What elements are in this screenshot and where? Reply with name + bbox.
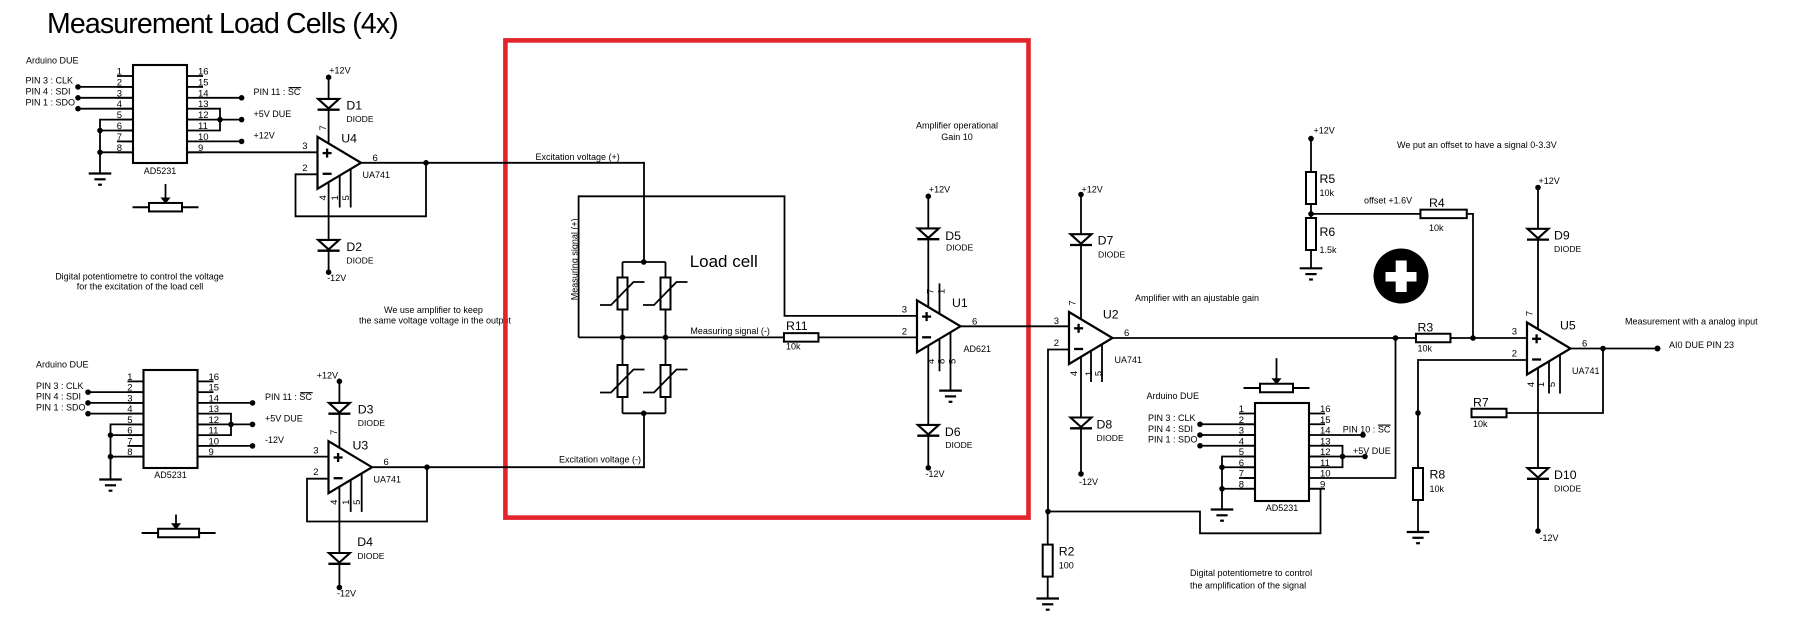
pin 6 stub <box>1239 466 1255 468</box>
svg-text:+12V: +12V <box>317 370 338 380</box>
svg-text:R11: R11 <box>786 319 808 333</box>
svg-text:7: 7 <box>127 436 132 447</box>
pin 12 stub <box>198 423 214 425</box>
svg-text:Excitation voltage (+): Excitation voltage (+) <box>536 152 620 162</box>
svg-text:15: 15 <box>198 77 209 88</box>
node -12V terminal #2 <box>250 443 256 449</box>
svg-text:5: 5 <box>1093 371 1104 376</box>
wire SDI to pin3 #3 <box>1200 434 1255 436</box>
pin 4 stub <box>1239 445 1255 447</box>
wire D6 to -12V <box>927 436 929 468</box>
diode D4 <box>329 553 350 563</box>
svg-text:+5V DUE: +5V DUE <box>1353 446 1391 456</box>
resistor R2 <box>1047 512 1049 545</box>
wire gain net to IC3 pin9 <box>1048 489 1321 534</box>
svg-text:R4: R4 <box>1429 196 1445 210</box>
potentiometer symbol #2 <box>158 529 199 538</box>
svg-text:DIODE: DIODE <box>945 440 972 450</box>
junction +5V bracket #3 <box>1340 454 1346 460</box>
svg-text:AD5231: AD5231 <box>144 166 177 176</box>
svg-text:4: 4 <box>1069 371 1080 376</box>
wire pin10 to +12V <box>203 140 242 142</box>
pin 11 stub <box>198 434 214 436</box>
svg-text:+12V: +12V <box>1082 185 1103 195</box>
svg-text:DIODE: DIODE <box>358 418 385 428</box>
wire U4 feedback loop <box>296 163 427 217</box>
diode D9 <box>1528 229 1549 239</box>
svg-text:Measurement with a analog inpu: Measurement with a analog input <box>1625 317 1758 327</box>
pin 5 stub <box>1239 456 1255 458</box>
pin 14 stub <box>198 402 214 404</box>
node +12V terminal #1 <box>239 139 245 145</box>
wire SDO to pin4 #3 <box>1200 445 1255 447</box>
wire CLK to pin 2 <box>78 86 133 88</box>
svg-text:7: 7 <box>1068 300 1079 305</box>
junction +5V bracket <box>217 117 223 123</box>
bridge right column upper lead <box>665 262 667 278</box>
svg-text:Amplifier operational: Amplifier operational <box>916 121 998 131</box>
svg-text:D7: D7 <box>1098 234 1114 248</box>
svg-text:+12V: +12V <box>1314 126 1335 136</box>
svg-text:10k: 10k <box>1320 188 1335 198</box>
IC AD5231 #2 (digital potentiometer, excitation -) <box>144 370 198 468</box>
node CLK terminal #2 <box>85 389 91 395</box>
junction pin6 gnd #2 <box>108 432 114 438</box>
svg-text:AD5231: AD5231 <box>1266 503 1299 513</box>
bridge left column upper lead <box>622 262 624 278</box>
potentiometer symbol #1 <box>149 203 182 212</box>
wire U5 pin2 from R7 node <box>1418 360 1527 413</box>
bridge middle rail (measuring -) <box>579 336 784 338</box>
svg-text:7: 7 <box>117 132 122 143</box>
svg-text:3: 3 <box>1512 327 1517 338</box>
resistor R7 <box>1472 409 1507 418</box>
pin 11 stub <box>187 130 203 132</box>
junction pin8 gnd #2 <box>108 454 114 460</box>
svg-text:PIN 11 : SC: PIN 11 : SC <box>254 87 301 97</box>
diode D1 <box>318 99 339 109</box>
bridge left column lower lead <box>622 397 624 413</box>
node bridge bottom <box>641 411 647 417</box>
ground R8 <box>1407 531 1430 533</box>
wire pin10 to U2 output (feedback) <box>1325 338 1396 478</box>
IC AD5231 #1 (digital potentiometer, excitation) <box>133 65 187 163</box>
svg-text:D1: D1 <box>346 99 362 113</box>
pin 3 stub <box>117 97 133 99</box>
diode D2 <box>318 240 339 250</box>
pin 1 stub <box>1239 413 1255 415</box>
wire U3 feedback loop <box>307 467 427 521</box>
svg-text:DIODE: DIODE <box>346 114 373 124</box>
svg-text:3: 3 <box>1054 316 1059 327</box>
pin 15 stub <box>1309 423 1325 425</box>
op-amp U5 <box>1527 323 1571 375</box>
svg-text:-12V: -12V <box>1540 533 1559 543</box>
power -12V (D2) <box>326 269 332 275</box>
pin 13 stub <box>187 108 203 110</box>
wire pin14 to PIN11 #2 <box>214 402 253 404</box>
svg-text:D5: D5 <box>945 229 961 243</box>
svg-text:2: 2 <box>313 467 318 478</box>
pin 7 stub <box>1239 477 1255 479</box>
pin 6 stub <box>117 130 133 132</box>
svg-text:R7: R7 <box>1473 395 1489 409</box>
svg-text:+5V DUE: +5V DUE <box>265 414 303 424</box>
svg-text:PIN 3 : CLK: PIN 3 : CLK <box>1148 413 1196 423</box>
wire D8 to -12V <box>1080 429 1082 474</box>
svg-text:AD621: AD621 <box>964 344 992 354</box>
svg-text:8: 8 <box>937 359 948 364</box>
svg-text:D8: D8 <box>1097 417 1113 431</box>
svg-text:+12V: +12V <box>929 184 950 194</box>
svg-text:offset +1.6V: offset +1.6V <box>1364 195 1412 205</box>
svg-text:D3: D3 <box>358 403 374 417</box>
pin 3 stub <box>128 402 144 404</box>
pin 5 stub (U2) <box>1101 344 1103 382</box>
IC AD5231 #3 (digital potentiometer, gain) <box>1255 403 1309 501</box>
svg-text:Excitation voltage (-): Excitation voltage (-) <box>559 454 641 464</box>
svg-text:5: 5 <box>1547 382 1558 387</box>
pin 5 stub (U4) <box>350 169 352 208</box>
wire +12V to D3 <box>338 381 340 403</box>
svg-text:U5: U5 <box>1560 319 1576 333</box>
svg-text:R6: R6 <box>1320 225 1336 239</box>
strain gauge R upper-left <box>618 278 628 310</box>
pin 1 stub (U2) <box>1090 351 1092 382</box>
diode D10 <box>1528 468 1549 478</box>
resistor R11 <box>784 333 819 342</box>
wire U1 pin4 to D6 <box>927 346 929 425</box>
svg-text:R5: R5 <box>1320 172 1336 186</box>
pin 13 stub <box>198 413 214 415</box>
node AI0 terminal <box>1655 346 1661 352</box>
pin 5 stub (U3) <box>361 473 363 512</box>
pin 10 stub <box>187 140 203 142</box>
wire IC2 pin9 to U3 pin3 <box>198 456 329 458</box>
wire pins 5-8 ground bus #2 <box>111 424 144 479</box>
svg-text:DIODE: DIODE <box>946 243 973 253</box>
svg-text:1: 1 <box>127 372 132 383</box>
svg-text:9: 9 <box>1320 479 1325 490</box>
svg-text:UA741: UA741 <box>1115 355 1143 365</box>
junction R7/R8/pin2 <box>1415 410 1421 416</box>
junction U3 output feedback <box>424 464 430 470</box>
svg-text:10k: 10k <box>786 342 801 352</box>
diode D6 <box>918 425 939 435</box>
svg-text:U2: U2 <box>1103 308 1119 322</box>
wire U2 pin2 feedback down <box>1048 350 1069 512</box>
svg-text:PIN 4 : SDI: PIN 4 : SDI <box>26 87 71 97</box>
pin 12 stub <box>187 119 203 121</box>
pin 15 stub <box>198 391 214 393</box>
svg-text:+12V: +12V <box>254 131 275 141</box>
op-amp U1 AD621 <box>917 300 961 352</box>
wire U5 pin4 to D10 <box>1537 368 1539 468</box>
svg-text:1: 1 <box>330 195 341 200</box>
junction pin8 gnd #3 <box>1219 486 1225 492</box>
power -12V (D10) <box>1535 528 1541 534</box>
pin 8 stub <box>1239 488 1255 490</box>
red highlight box <box>505 40 1028 517</box>
power -12V (D6) <box>926 465 932 471</box>
wire SDO to pin4 #2 <box>88 413 144 415</box>
svg-text:PIN 1 : SDO: PIN 1 : SDO <box>26 98 76 108</box>
pin 11 stub <box>1309 466 1325 468</box>
junction pin8 gnd #1 <box>97 150 103 156</box>
junction U4 output feedback <box>423 160 429 166</box>
diode D7 <box>1071 234 1092 244</box>
bridge right column lower lead <box>665 397 667 413</box>
svg-text:U4: U4 <box>341 132 357 146</box>
wire excitation- from U3 out to bridge bottom <box>372 413 644 467</box>
svg-text:1: 1 <box>117 67 122 78</box>
svg-text:Measurement Load Cells (4x): Measurement Load Cells (4x) <box>47 8 398 40</box>
svg-text:PIN 1 : SDO: PIN 1 : SDO <box>36 402 86 412</box>
svg-text:100: 100 <box>1059 561 1074 571</box>
svg-text:3: 3 <box>302 141 307 152</box>
svg-text:Load cell: Load cell <box>690 252 758 271</box>
wire +12V to R5 <box>1310 139 1312 172</box>
node SDO terminal #2 <box>85 411 91 417</box>
svg-text:DIODE: DIODE <box>1554 483 1581 493</box>
pin 14 stub <box>1309 434 1325 436</box>
svg-text:2: 2 <box>302 163 307 174</box>
wire R7 to output node <box>1507 349 1604 414</box>
svg-text:4: 4 <box>318 195 329 200</box>
pin 1 stub <box>128 380 144 382</box>
wire +12V to D7 <box>1080 195 1082 235</box>
svg-text:R2: R2 <box>1059 545 1075 559</box>
wire U3 pin4 to D4 <box>338 487 340 553</box>
wire R5 to junction <box>1310 204 1312 218</box>
strain gauge R lower-left <box>618 365 628 397</box>
wire R6 to ground <box>1310 250 1312 268</box>
wire D3 to U3 pin7 <box>338 414 340 448</box>
pin 16 stub <box>198 380 214 382</box>
svg-text:PIN 10 : SC: PIN 10 : SC <box>1343 425 1391 435</box>
wire R8 from node <box>1417 413 1419 468</box>
pin 1 stub (U4) <box>339 176 341 208</box>
svg-text:the same voltage voltage in th: the same voltage voltage in the output <box>359 315 512 325</box>
svg-text:-12V: -12V <box>327 273 346 283</box>
wire IC1 pin9 to U4 pin3 <box>187 151 318 153</box>
op-amp U4 <box>318 137 362 189</box>
junction U5 out feedback <box>1600 346 1606 352</box>
wire CLK to pin2 #2 <box>88 391 144 393</box>
svg-text:+12V: +12V <box>1539 176 1560 186</box>
junction U2 out / pot feedback <box>1393 335 1399 341</box>
wire +12V to D5 <box>927 196 929 228</box>
wire pin14 to PIN11 label <box>203 97 242 99</box>
pin 4 stub <box>128 413 144 415</box>
pin 4 stub <box>117 108 133 110</box>
pin 3 stub <box>1239 434 1255 436</box>
svg-text:1.5k: 1.5k <box>1320 245 1338 255</box>
pin 7 stub <box>128 445 144 447</box>
wire CLK to pin2 #3 <box>1200 423 1255 425</box>
svg-text:PIN 4 : SDI: PIN 4 : SDI <box>1148 424 1193 434</box>
node PIN11 terminal <box>239 95 245 101</box>
pin 8 stub <box>117 151 133 153</box>
pin 5 stub to ground (U1) <box>950 332 952 390</box>
node SDO terminal #3 <box>1197 443 1203 449</box>
pin 9 stub <box>187 151 203 153</box>
diode D8 <box>1071 418 1092 428</box>
pin 1 stub (U5) <box>1548 361 1550 393</box>
wire pin14 to PIN10 #3 <box>1325 434 1363 436</box>
wire +12V to D9 <box>1537 188 1539 229</box>
wire D10 to -12V <box>1537 479 1539 531</box>
pin 12 stub <box>1309 456 1325 458</box>
pot symbol #3 above IC3 <box>1260 384 1293 393</box>
bridge bottom rail <box>623 412 666 414</box>
wire R4 down to R3 net <box>1467 214 1473 338</box>
svg-text:U1: U1 <box>952 296 968 310</box>
junction pin6 gnd #1 <box>97 128 103 134</box>
node bridge top <box>641 259 647 265</box>
wire D9 to U5 pin7 <box>1537 240 1539 329</box>
svg-text:Digital potentiometre to contr: Digital potentiometre to control the vol… <box>55 272 224 282</box>
svg-text:AD5231: AD5231 <box>154 470 187 480</box>
node SDI terminal #3 <box>1197 432 1203 438</box>
node +5V terminal #3 <box>1362 454 1368 460</box>
svg-text:D10: D10 <box>1554 468 1577 482</box>
wire SDI to pin 3 <box>78 97 133 99</box>
svg-text:AI0 DUE PIN 23: AI0 DUE PIN 23 <box>1669 340 1734 350</box>
plus icon (black circle) <box>1374 249 1429 304</box>
wire pins 5-8 ground bus #1 <box>100 120 133 174</box>
wire pins 13-11 +5V bracket <box>187 109 242 131</box>
svg-text:PIN 1 : SDO: PIN 1 : SDO <box>1148 435 1198 445</box>
svg-text:1: 1 <box>341 500 352 505</box>
strain gauge R lower-right <box>661 365 671 397</box>
resistor R4 <box>1420 210 1466 219</box>
resistor R6 <box>1306 218 1316 250</box>
svg-text:D9: D9 <box>1554 229 1570 243</box>
svg-text:We put an offset to have a sig: We put an offset to have a signal 0-3.3V <box>1397 140 1557 150</box>
svg-text:PIN 3 : CLK: PIN 3 : CLK <box>36 381 84 391</box>
svg-text:7: 7 <box>1239 469 1244 480</box>
svg-text:-12V: -12V <box>337 588 356 598</box>
pin 16 stub <box>187 75 203 77</box>
svg-text:1: 1 <box>1239 404 1244 415</box>
svg-text:7: 7 <box>329 430 340 435</box>
wire SDI to pin3 #2 <box>88 402 144 404</box>
svg-text:Digital potentiometre to contr: Digital potentiometre to control <box>1190 568 1312 578</box>
pin 5 stub <box>128 423 144 425</box>
svg-text:7: 7 <box>318 125 329 130</box>
svg-text:the amplification of the signa: the amplification of the signal <box>1190 581 1306 591</box>
svg-text:DIODE: DIODE <box>1554 244 1581 254</box>
pin 8 stub <box>128 456 144 458</box>
resistor R5 <box>1306 172 1316 204</box>
bridge left column middle lead <box>622 310 624 366</box>
node CLK terminal #3 <box>1197 421 1203 427</box>
ground IC2 <box>99 478 122 480</box>
wire +12V to D1 <box>328 77 330 99</box>
wire U1 out to U2 pin3 <box>961 325 1070 327</box>
svg-text:for the excitation of the load: for the excitation of the load cell <box>77 282 204 292</box>
svg-text:DIODE: DIODE <box>346 256 373 266</box>
ground IC3 <box>1211 508 1234 510</box>
pin 9 stub <box>198 456 214 458</box>
pin 9 stub <box>1309 488 1325 490</box>
svg-text:D4: D4 <box>357 535 373 549</box>
node SDO terminal <box>75 106 81 112</box>
svg-text:D6: D6 <box>945 425 961 439</box>
svg-text:1: 1 <box>937 289 948 294</box>
svg-text:16: 16 <box>209 372 220 383</box>
svg-text:Arduino DUE: Arduino DUE <box>26 56 79 66</box>
svg-text:Measuring signal (-): Measuring signal (-) <box>690 326 770 336</box>
wire D7 to U2 pin7 <box>1080 245 1082 318</box>
wire R2 to ground <box>1047 577 1049 599</box>
junction middle rail left <box>620 335 626 341</box>
wire measuring+ loop to U1 pin3 <box>579 196 917 337</box>
node SDI terminal <box>75 95 81 101</box>
junction +5V bracket #2 <box>228 422 234 428</box>
svg-text:UA741: UA741 <box>1572 366 1600 376</box>
wire R8 to ground <box>1417 500 1419 532</box>
resistor R8 <box>1413 468 1423 500</box>
svg-text:Amplifier with an ajustable ga: Amplifier with an ajustable gain <box>1135 293 1259 303</box>
pin 8 stub bottom (U1) <box>939 339 941 371</box>
power -12V (D4) <box>337 585 343 591</box>
ground IC1 <box>89 172 112 174</box>
op-amp U2 <box>1069 312 1113 364</box>
pin 7 stub <box>117 140 133 142</box>
pin 10 stub <box>1309 477 1325 479</box>
svg-text:Measuring signal (+): Measuring signal (+) <box>570 218 580 300</box>
svg-text:-12V: -12V <box>926 469 945 479</box>
power -12V (D8) <box>1078 471 1084 477</box>
wire offset to R4 <box>1311 213 1421 215</box>
svg-text:2: 2 <box>902 326 907 337</box>
node +5V terminal <box>239 117 245 123</box>
svg-text:U3: U3 <box>353 438 369 452</box>
junction R2 / gain net <box>1045 509 1051 515</box>
junction pin6 gnd #3 <box>1219 464 1225 470</box>
wire D2 to -12V <box>328 251 330 272</box>
bridge right column middle lead <box>665 310 667 366</box>
svg-text:10k: 10k <box>1418 344 1433 354</box>
bridge top rail <box>623 261 666 263</box>
junction R4/R3 node <box>1470 335 1476 341</box>
svg-text:Arduino DUE: Arduino DUE <box>1147 391 1200 401</box>
wire excitation+ from U4 out to bridge top <box>361 163 644 262</box>
pin 1 stub top (U1) <box>939 283 941 313</box>
strain gauge R upper-right <box>661 278 671 310</box>
ground R2 <box>1036 597 1059 599</box>
svg-text:We use amplifier to keep: We use amplifier to keep <box>384 305 483 315</box>
pin 2 stub <box>117 86 133 88</box>
svg-text:5: 5 <box>948 359 959 364</box>
svg-text:15: 15 <box>1320 415 1331 426</box>
svg-text:PIN 4 : SDI: PIN 4 : SDI <box>36 392 81 402</box>
junction offset node <box>1308 211 1314 217</box>
wire R11 to U1 pin2 <box>819 336 918 338</box>
ground R6 <box>1300 267 1323 269</box>
wire D4 to -12V <box>338 564 340 588</box>
node CLK terminal <box>75 84 81 90</box>
svg-text:DIODE: DIODE <box>1097 433 1124 443</box>
svg-text:10k: 10k <box>1473 419 1488 429</box>
svg-text:+12V: +12V <box>329 65 350 75</box>
svg-text:2: 2 <box>1512 349 1517 360</box>
svg-text:16: 16 <box>1320 404 1331 415</box>
pin 13 stub <box>1309 445 1325 447</box>
wire D5 to U1 pin7 <box>927 240 929 308</box>
